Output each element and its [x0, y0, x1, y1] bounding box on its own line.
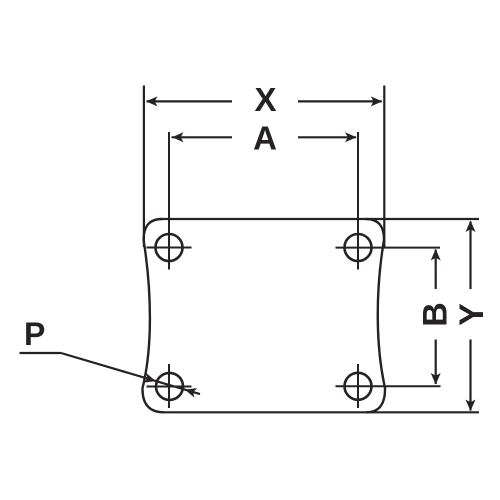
crosshair top-left vertical / A left extension	[168, 132, 170, 270]
svg-text:P: P	[24, 316, 45, 352]
svg-text:A: A	[253, 120, 277, 157]
svg-text:Y: Y	[453, 303, 491, 326]
svg-text:B: B	[417, 302, 455, 327]
B arrow up	[431, 249, 441, 261]
crosshair top-right horizontal / B top extension	[336, 247, 441, 249]
B arrow down	[431, 373, 441, 385]
Y arrow down	[466, 400, 476, 412]
X extension line left	[143, 86, 145, 248]
plate outline	[158, 218, 479, 220]
P leader slanted line	[61, 353, 200, 394]
X extension line right	[383, 86, 385, 248]
Y dimension line	[469, 222, 471, 290]
A dimension line	[172, 136, 233, 138]
crosshair top-left horizontal	[147, 247, 192, 249]
crosshair bottom-right horizontal / B bottom extension	[336, 385, 441, 387]
crosshair bottom-left vertical	[168, 364, 170, 408]
B dimension line	[435, 250, 437, 290]
A arrow right	[345, 132, 357, 142]
A arrow left	[172, 132, 184, 142]
hole top-left	[156, 234, 183, 261]
crosshair top-right vertical / A right extension	[357, 132, 359, 270]
crosshair bottom-left horizontal	[147, 386, 192, 388]
P arrow onto hole (left)	[143, 373, 157, 386]
hole top-right	[345, 234, 372, 261]
hole bottom-right	[345, 373, 372, 400]
P arrow onto hole (right)	[183, 385, 197, 398]
Y arrow up	[466, 221, 476, 233]
hole bottom-left	[156, 373, 183, 400]
crosshair bottom-right vertical	[357, 364, 359, 408]
svg-text:X: X	[254, 81, 276, 118]
X dimension line	[147, 100, 233, 102]
X arrow left	[146, 96, 158, 106]
P leader underline	[20, 352, 62, 354]
X arrow right	[371, 96, 383, 106]
